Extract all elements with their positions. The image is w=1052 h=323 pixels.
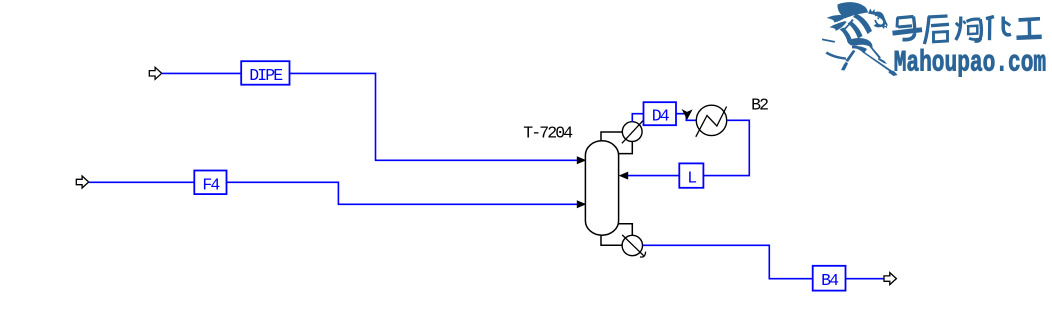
arrowhead at D4-B2 corner: [682, 109, 693, 120]
svg-text:T-7204: T-7204: [523, 124, 573, 143]
arrowhead F4 into column: [577, 200, 587, 208]
logo horse eye and cheek line: [874, 18, 881, 27]
column top return pocket: [619, 142, 633, 154]
wire DIPE to column: [290, 73, 578, 160]
feed arrow F4 inlet: [76, 176, 88, 188]
stream label L: [679, 163, 703, 187]
svg-text:F4: F4: [202, 175, 220, 194]
svg-text:DIPE: DIPE: [249, 66, 283, 85]
stream label DIPE: [241, 61, 289, 85]
condenser circle: [622, 122, 642, 142]
column bottom pocket: [619, 224, 633, 236]
column T-7204 vessel: [585, 141, 618, 235]
heater B2 circle: [696, 105, 726, 135]
reboiler diagonal: [622, 235, 643, 256]
svg-text:L: L: [687, 169, 696, 188]
wire reboiler to B4: [643, 245, 813, 278]
arrowhead L into column: [619, 172, 629, 180]
column top pipe to condenser: [601, 132, 622, 142]
svg-text:D4: D4: [652, 107, 670, 126]
stream label D4: [644, 102, 677, 126]
wire D4 to heater B2: [676, 114, 696, 121]
logo horse head white details: [874, 16, 887, 29]
wire B2 to L: [704, 120, 750, 175]
wire L to column: [628, 175, 679, 177]
product arrow B4 outlet: [884, 273, 896, 285]
feed arrow DIPE inlet: [149, 67, 161, 79]
svg-text:B4: B4: [821, 271, 839, 290]
logo horse: [822, 2, 898, 76]
column bottom pipe to reboiler: [601, 235, 622, 246]
arrowhead DIPE into column: [577, 156, 587, 164]
reboiler circle: [622, 235, 642, 255]
wire inlet to DIPE: [162, 72, 241, 74]
reboiler hook arrow: [640, 252, 646, 258]
stream label B4: [813, 266, 846, 291]
logo text 马后炮化工: [893, 16, 1042, 44]
svg-text:B2: B2: [751, 95, 768, 114]
wire F4 to column: [227, 182, 578, 204]
wire condenser to D4: [632, 114, 643, 122]
wire B4 to outlet: [846, 278, 884, 280]
heater B2 zigzag: [696, 107, 727, 137]
svg-text:Mahoupao.com: Mahoupao.com: [894, 45, 1046, 80]
condenser diagonal: [622, 120, 644, 143]
wire inlet to F4: [89, 181, 194, 183]
stream label F4: [194, 171, 226, 195]
